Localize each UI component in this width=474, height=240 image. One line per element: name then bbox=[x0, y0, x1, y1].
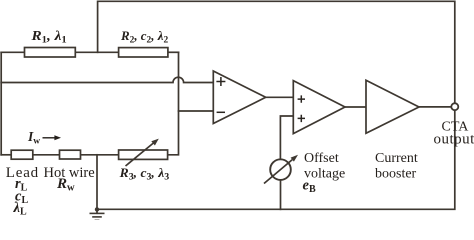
wire: node A to op-amp U1 + input with hop over node B vertical bbox=[1, 77, 213, 82]
ground bbox=[90, 213, 105, 220]
svg-text:voltage: voltage bbox=[304, 167, 345, 182]
svg-text:output: output bbox=[434, 132, 474, 148]
wire: node B vertical (R2/R3 junction column) bbox=[168, 52, 179, 155]
wire: bottom branch from left vertical to Lead resistor bbox=[1, 154, 11, 156]
wire: ground node vertical down to ground symbol bbox=[96, 155, 98, 213]
source: offset voltage eB (circle with arrow) bbox=[264, 155, 298, 184]
wire: node B tap to op-amp U1 - input bbox=[179, 110, 214, 112]
svg-text:R2, c2, λ2: R2, c2, λ2 bbox=[120, 28, 168, 46]
wire: op-amp U1 output to U2 first input bbox=[266, 96, 294, 98]
wire: top branch from left vertical to R1 bbox=[1, 51, 24, 53]
svg-text:Iw: Iw bbox=[27, 129, 40, 147]
amplifier: current booster bbox=[366, 80, 419, 133]
pin: U1 - input mark bbox=[217, 111, 225, 113]
wire: R2 right end to node B vertical bbox=[168, 51, 179, 53]
op-amp U2 (summing amplifier) bbox=[293, 81, 345, 134]
wire: current booster output to CTA output node bbox=[419, 106, 451, 108]
wire: feedback from CTA output node up, along top, down to bridge top node bbox=[98, 1, 455, 103]
arrow: Iw current direction bbox=[43, 135, 62, 140]
svg-text:Lead: Lead bbox=[6, 165, 39, 181]
wire: between R1 and R2 through bridge top node bbox=[75, 51, 118, 53]
op-amp U1 (bridge amplifier) bbox=[213, 71, 265, 124]
junction: ground node dot bbox=[95, 207, 99, 211]
svg-text:R3, c3, λ3: R3, c3, λ3 bbox=[119, 165, 170, 183]
resistor: Lead rL bbox=[11, 150, 33, 159]
resistor R1 bbox=[25, 48, 76, 58]
svg-text:Current: Current bbox=[375, 151, 418, 166]
resistor R2 bbox=[119, 48, 168, 57]
resistor R3 (adjustable) bbox=[119, 150, 168, 159]
wire: op-amp U2 output to current booster input bbox=[345, 106, 366, 108]
svg-text:Offset: Offset bbox=[304, 151, 339, 166]
wire: Hot wire to R3 through ground node column bbox=[81, 154, 119, 156]
svg-text:Hot wire: Hot wire bbox=[44, 165, 95, 181]
pin: U2 lower + input mark bbox=[298, 115, 305, 122]
arrow: R3 adjustment arrow bbox=[126, 139, 159, 166]
resistor: Hot wire Rw bbox=[60, 150, 81, 159]
svg-text:R1, λ1: R1, λ1 bbox=[30, 28, 67, 46]
wire: between Lead and Hot wire resistors bbox=[33, 154, 60, 156]
wire: offset voltage source bottom to bottom rail bbox=[280, 180, 282, 209]
wire: left vertical (node A column) bbox=[0, 52, 2, 155]
node: CTA output terminal (open circle) bbox=[451, 103, 458, 110]
wire: bottom rail from ground junction to right vertical bbox=[97, 110, 455, 209]
svg-text:booster: booster bbox=[375, 167, 417, 182]
pin: U1 + input mark bbox=[216, 77, 225, 86]
wire: offset voltage source to op-amp U2 second input bbox=[280, 116, 293, 159]
pin: U2 upper + input mark bbox=[298, 95, 305, 102]
